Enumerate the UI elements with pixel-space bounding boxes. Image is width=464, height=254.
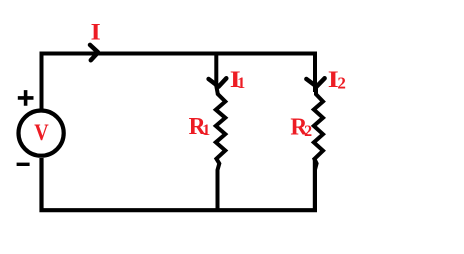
wire: bottom return bus [42,158,315,210]
svg-text:1: 1 [202,122,210,139]
voltage source V1 circle [18,111,63,156]
svg-text:2: 2 [337,74,346,93]
resistor R2 zigzag [314,88,323,170]
current arrow I on top wire [90,45,98,60]
svg-text:I: I [91,20,101,46]
branch current arrow I2 [306,78,324,86]
resistor R1 zigzag [216,94,226,212]
svg-text:2: 2 [304,123,312,140]
wire: R1 branch from top bus [216,54,218,95]
svg-text:V: V [34,120,49,146]
branch current arrow I1 [209,78,227,86]
polarity plus sign [18,90,34,106]
wire: top bus from source positive terminal to R2 branch [42,54,316,111]
svg-text:1: 1 [237,75,245,92]
polarity minus sign [17,163,30,166]
